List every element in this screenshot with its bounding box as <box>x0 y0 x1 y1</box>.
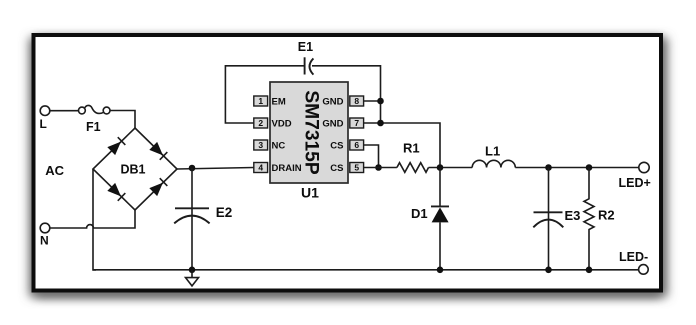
svg-text:D1: D1 <box>411 206 428 221</box>
node D1 rail <box>437 267 444 274</box>
resistor R2 <box>584 168 594 270</box>
node D1 top <box>437 164 444 171</box>
svg-text:AC: AC <box>45 163 64 178</box>
svg-text:N: N <box>40 233 49 247</box>
U1 pin 6 box <box>350 140 364 150</box>
svg-text:L: L <box>40 117 47 131</box>
svg-text:GND: GND <box>322 118 343 129</box>
svg-text:E2: E2 <box>216 205 233 220</box>
svg-text:5: 5 <box>354 163 359 173</box>
svg-text:CS: CS <box>330 140 343 151</box>
resistor R1 <box>397 163 429 173</box>
svg-text:1: 1 <box>258 96 263 106</box>
inductor L1 <box>472 160 515 167</box>
svg-text:8: 8 <box>354 96 359 106</box>
wire bridge right vertex to U1 DRAIN <box>177 168 254 170</box>
diode DB1 top-left <box>107 137 125 155</box>
svg-text:7: 7 <box>354 118 359 128</box>
capacitor E2 <box>174 168 209 270</box>
U1 body <box>270 82 348 183</box>
wire pin8 to E1 vertical <box>364 100 381 102</box>
svg-text:2: 2 <box>258 118 263 128</box>
node E3 top <box>545 164 552 171</box>
capacitor E3 <box>533 168 563 270</box>
ground <box>186 270 199 286</box>
diode D1 <box>431 168 449 270</box>
wire fuse to bridge top <box>110 111 135 129</box>
svg-text:LED-: LED- <box>619 250 648 264</box>
svg-text:E1: E1 <box>298 40 313 54</box>
svg-text:R1: R1 <box>403 141 420 156</box>
wire L1 to LED+ <box>515 167 639 169</box>
capacitor E1 wiring <box>225 66 304 123</box>
bridge rectifier DB1 diamond <box>93 128 177 210</box>
diode DB1 top-right <box>149 142 167 160</box>
svg-text:LED+: LED+ <box>619 176 651 190</box>
bottom rail <box>93 269 639 271</box>
terminal LED- <box>639 265 649 275</box>
U1 pin 8 box <box>350 96 364 106</box>
svg-text:3: 3 <box>258 140 263 150</box>
U1 pin 1 box <box>254 96 268 106</box>
terminal LED+ <box>639 162 649 172</box>
node junction E2 top <box>189 165 196 172</box>
svg-text:F1: F1 <box>86 120 101 134</box>
diode DB1 bottom-right <box>149 178 167 196</box>
svg-text:NC: NC <box>272 140 286 151</box>
node junction E2 rail <box>189 267 196 274</box>
svg-text:CS: CS <box>330 163 343 174</box>
U1 pin 2 box <box>254 118 268 128</box>
svg-text:L1: L1 <box>485 144 500 159</box>
wire R1 to node <box>429 167 473 169</box>
fuse F1 <box>79 105 111 113</box>
svg-text:E3: E3 <box>565 208 581 223</box>
wire L to fuse <box>50 110 79 112</box>
svg-text:DRAIN: DRAIN <box>272 163 302 174</box>
svg-text:EM: EM <box>272 96 286 107</box>
svg-text:U1: U1 <box>301 184 319 200</box>
svg-text:GND: GND <box>322 96 343 107</box>
wire pin6 to pin5 <box>364 145 379 168</box>
diode DB1 bottom-left <box>107 183 125 201</box>
U1 pin 4 box <box>254 163 268 173</box>
wire pin5 CS to R1 <box>364 167 397 169</box>
node R2 rail <box>586 267 593 274</box>
U1 pin 5 box <box>350 163 364 173</box>
svg-text:4: 4 <box>258 163 263 173</box>
capacitor E1 <box>305 57 314 74</box>
border frame <box>34 35 662 291</box>
node pin7 <box>377 120 384 127</box>
svg-text:DB1: DB1 <box>121 162 146 176</box>
node R2 top <box>586 164 593 171</box>
wire N to bridge bottom with hop <box>50 210 135 228</box>
terminal N <box>40 223 50 233</box>
svg-text:6: 6 <box>354 140 359 150</box>
node pin6-pin5 <box>375 164 382 171</box>
svg-text:SM7315P: SM7315P <box>300 90 321 174</box>
svg-text:R2: R2 <box>598 207 615 222</box>
U1 pin 7 box <box>350 118 364 128</box>
node pin8 <box>377 98 384 105</box>
node E3 rail <box>545 267 552 274</box>
wire bridge left vertex down to rail <box>93 169 96 270</box>
wire pin7 GND to D1 node <box>364 123 440 168</box>
terminal L <box>40 106 50 116</box>
U1 pin 3 box <box>254 140 268 150</box>
svg-text:VDD: VDD <box>272 118 292 129</box>
